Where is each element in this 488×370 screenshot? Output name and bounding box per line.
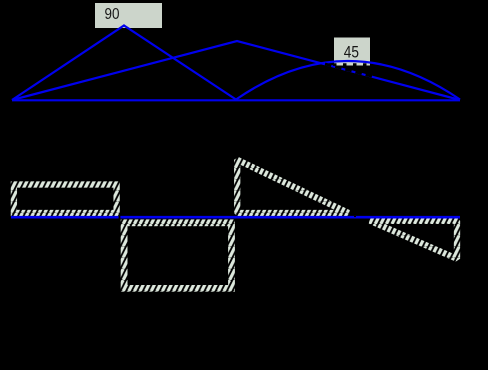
small break in shear axis between rectangles: [119, 216, 121, 220]
baseline of moment diagram: [12, 99, 460, 101]
tiny notch in shear axis at zero crossing: [354, 216, 356, 217]
label box 90 (moment peak value): [95, 3, 162, 28]
shear triangle lower (negative, right span) hatched band: [370, 221, 457, 259]
svg-text:45: 45: [344, 42, 359, 61]
moment triangle 1 (peak 90): [12, 26, 236, 101]
shear triangle upper (positive, right span) hatched band: [237, 160, 348, 213]
svg-text:90: 90: [105, 6, 120, 23]
shear rectangle 1 (positive, left span) hatched band: [14, 185, 117, 214]
black dashed tick line over bottom of 45 box: [333, 63, 372, 66]
black dashes over triangle-2 hypotenuse near 45 box: [325, 64, 374, 77]
shear rectangle 2 (negative, below axis) hatched band: [124, 223, 231, 289]
moment triangle 2 (wide, peak above middle support): [12, 41, 460, 100]
label box 45 (parabola apex value): [334, 38, 370, 66]
shear diagram axis (blue baseline): [11, 216, 460, 219]
parabola (distributed load moment, apex 45): [236, 61, 460, 100]
